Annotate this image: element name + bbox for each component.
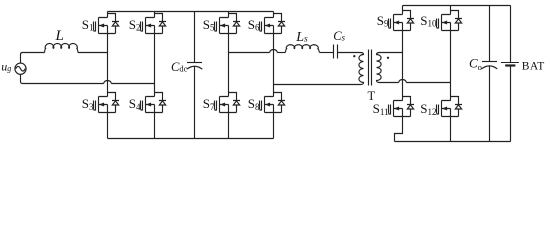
wire: leg 4 lower segment: [273, 113, 275, 139]
switch S2: body arrow: [146, 24, 151, 28]
svg-text:BAT: BAT: [522, 60, 545, 72]
wire: leg 2 upper segment: [154, 12, 156, 18]
switch S9: body arrow: [394, 21, 399, 25]
capacitor Cs right plate: [337, 45, 339, 59]
wire: leg 5 upper segment: [402, 6, 404, 15]
wire hop over leg5: [399, 80, 407, 83]
switch S7: antiparallel diode triangle: [233, 101, 239, 105]
switch S6: MOSFET body: [260, 14, 286, 34]
wire: leg 3 lower segment: [228, 113, 230, 139]
capacitor Cdc top lead: [194, 12, 196, 63]
wire: leg 1 middle segment: [107, 34, 109, 97]
transformer T primary winding: [359, 53, 364, 85]
transformer T secondary winding: [377, 53, 382, 83]
switch S2: MOSFET body: [141, 14, 167, 34]
switch S6: body arrow: [265, 24, 270, 28]
switch S7: body arrow: [220, 103, 225, 107]
wire: leg 2 middle segment: [154, 34, 156, 97]
wire: leg 4 middle segment: [273, 34, 275, 97]
battery BAT long plate: [501, 62, 519, 64]
switch S11: MOSFET body: [389, 97, 415, 117]
switch S3: antiparallel diode triangle: [112, 101, 118, 105]
wire: leg 3 upper segment: [228, 12, 230, 18]
switch S8: body arrow: [265, 103, 270, 107]
switch S8: MOSFET body: [260, 93, 286, 113]
ac source ug sine symbol: [16, 66, 26, 71]
switch S9: antiparallel diode triangle: [407, 19, 413, 23]
capacitor Cs left plate: [333, 45, 335, 59]
wire: ug top lead to inductor L: [21, 53, 45, 64]
switch S12: antiparallel diode triangle: [455, 105, 461, 109]
wire: dc bottom rail (bridges 1-2): [108, 138, 274, 140]
inductor L: [45, 44, 78, 53]
wire: ug bottom lead: [21, 74, 104, 83]
capacitor Cdc straight plate: [187, 62, 202, 64]
wire: dc top rail (bridges 1-2): [108, 11, 274, 13]
wire: leg 4 upper segment: [273, 12, 275, 18]
wire: leg3 midpoint to hop at leg4: [229, 52, 270, 54]
wire: transformer primary bottom to leg4 midpoint: [274, 84, 361, 86]
wire: output top rail (bridge 3): [403, 5, 511, 7]
wire: inductor L to leg1 midpoint: [78, 52, 108, 54]
wire: leg 3 middle segment: [228, 34, 230, 97]
wire: leg 5 lower segment with jog: [395, 117, 403, 142]
wire hop over leg1: [104, 81, 112, 84]
capacitor Cdc bottom lead: [194, 67, 196, 139]
switch S10: antiparallel diode triangle: [455, 19, 461, 23]
switch S12: body arrow: [442, 107, 447, 111]
switch S11: antiparallel diode triangle: [407, 105, 413, 109]
wire: secondary top to leg5 midpoint: [380, 52, 403, 54]
switch S1: body arrow: [99, 24, 104, 28]
transformer T primary polarity dot: [353, 55, 355, 57]
battery BAT top lead: [510, 6, 512, 63]
capacitor Co bottom lead: [489, 66, 491, 141]
switch S3: body arrow: [99, 103, 104, 107]
switch S1: MOSFET body: [94, 14, 120, 34]
capacitor Co straight plate: [482, 61, 497, 63]
switch S4: MOSFET body: [141, 93, 167, 113]
wire: leg 6 upper segment: [450, 6, 452, 15]
switch S6: antiparallel diode triangle: [278, 22, 284, 26]
wire: output bottom rail (bridge 3): [395, 141, 511, 143]
switch S4: body arrow: [146, 103, 151, 107]
wire: Cs to transformer primary top: [338, 52, 361, 54]
battery BAT bottom lead: [510, 66, 512, 142]
wire: hop to inductor Ls: [277, 52, 285, 54]
switch S12: MOSFET body: [437, 97, 463, 117]
transformer T secondary polarity dot: [387, 57, 389, 59]
battery BAT short plate: [505, 64, 515, 66]
wire: leg 6 lower segment: [450, 117, 452, 142]
wire: Ls to capacitor Cs: [319, 52, 333, 54]
capacitor Co top lead: [489, 6, 491, 62]
capacitor Cdc curved plate: [187, 66, 203, 69]
switch S1: antiparallel diode triangle: [112, 22, 118, 26]
wire: hop to leg6 midpoint: [406, 82, 450, 84]
wire: leg 5 middle segment: [402, 31, 404, 101]
switch S9: MOSFET body: [389, 11, 415, 31]
switch S8: antiparallel diode triangle: [278, 101, 284, 105]
ac source ug circle: [15, 63, 26, 74]
switch S10: MOSFET body: [437, 11, 463, 31]
wire: hop to leg2 midpoint: [111, 83, 154, 85]
transformer T core line 1: [368, 50, 370, 86]
capacitor Co curved plate: [482, 66, 498, 69]
wire hop over leg4: [270, 50, 278, 53]
switch S2: antiparallel diode triangle: [159, 22, 165, 26]
switch S10: body arrow: [442, 21, 447, 25]
wire: leg 1 upper segment: [107, 12, 109, 18]
svg-text:L: L: [55, 28, 64, 44]
wire: secondary bottom to hop at leg5: [380, 82, 399, 84]
switch S5: body arrow: [220, 24, 225, 28]
switch S3: MOSFET body: [94, 93, 120, 113]
wire: leg 1 lower segment: [107, 113, 109, 139]
transformer T core line 2: [371, 50, 373, 86]
wire: leg 2 lower segment: [154, 113, 156, 139]
switch S11: body arrow: [394, 107, 399, 111]
wire: leg 6 middle segment: [450, 31, 452, 101]
switch S7: MOSFET body: [215, 93, 241, 113]
switch S5: MOSFET body: [215, 14, 241, 34]
inductor Ls: [285, 45, 319, 53]
switch S4: antiparallel diode triangle: [159, 101, 165, 105]
switch S5: antiparallel diode triangle: [233, 22, 239, 26]
